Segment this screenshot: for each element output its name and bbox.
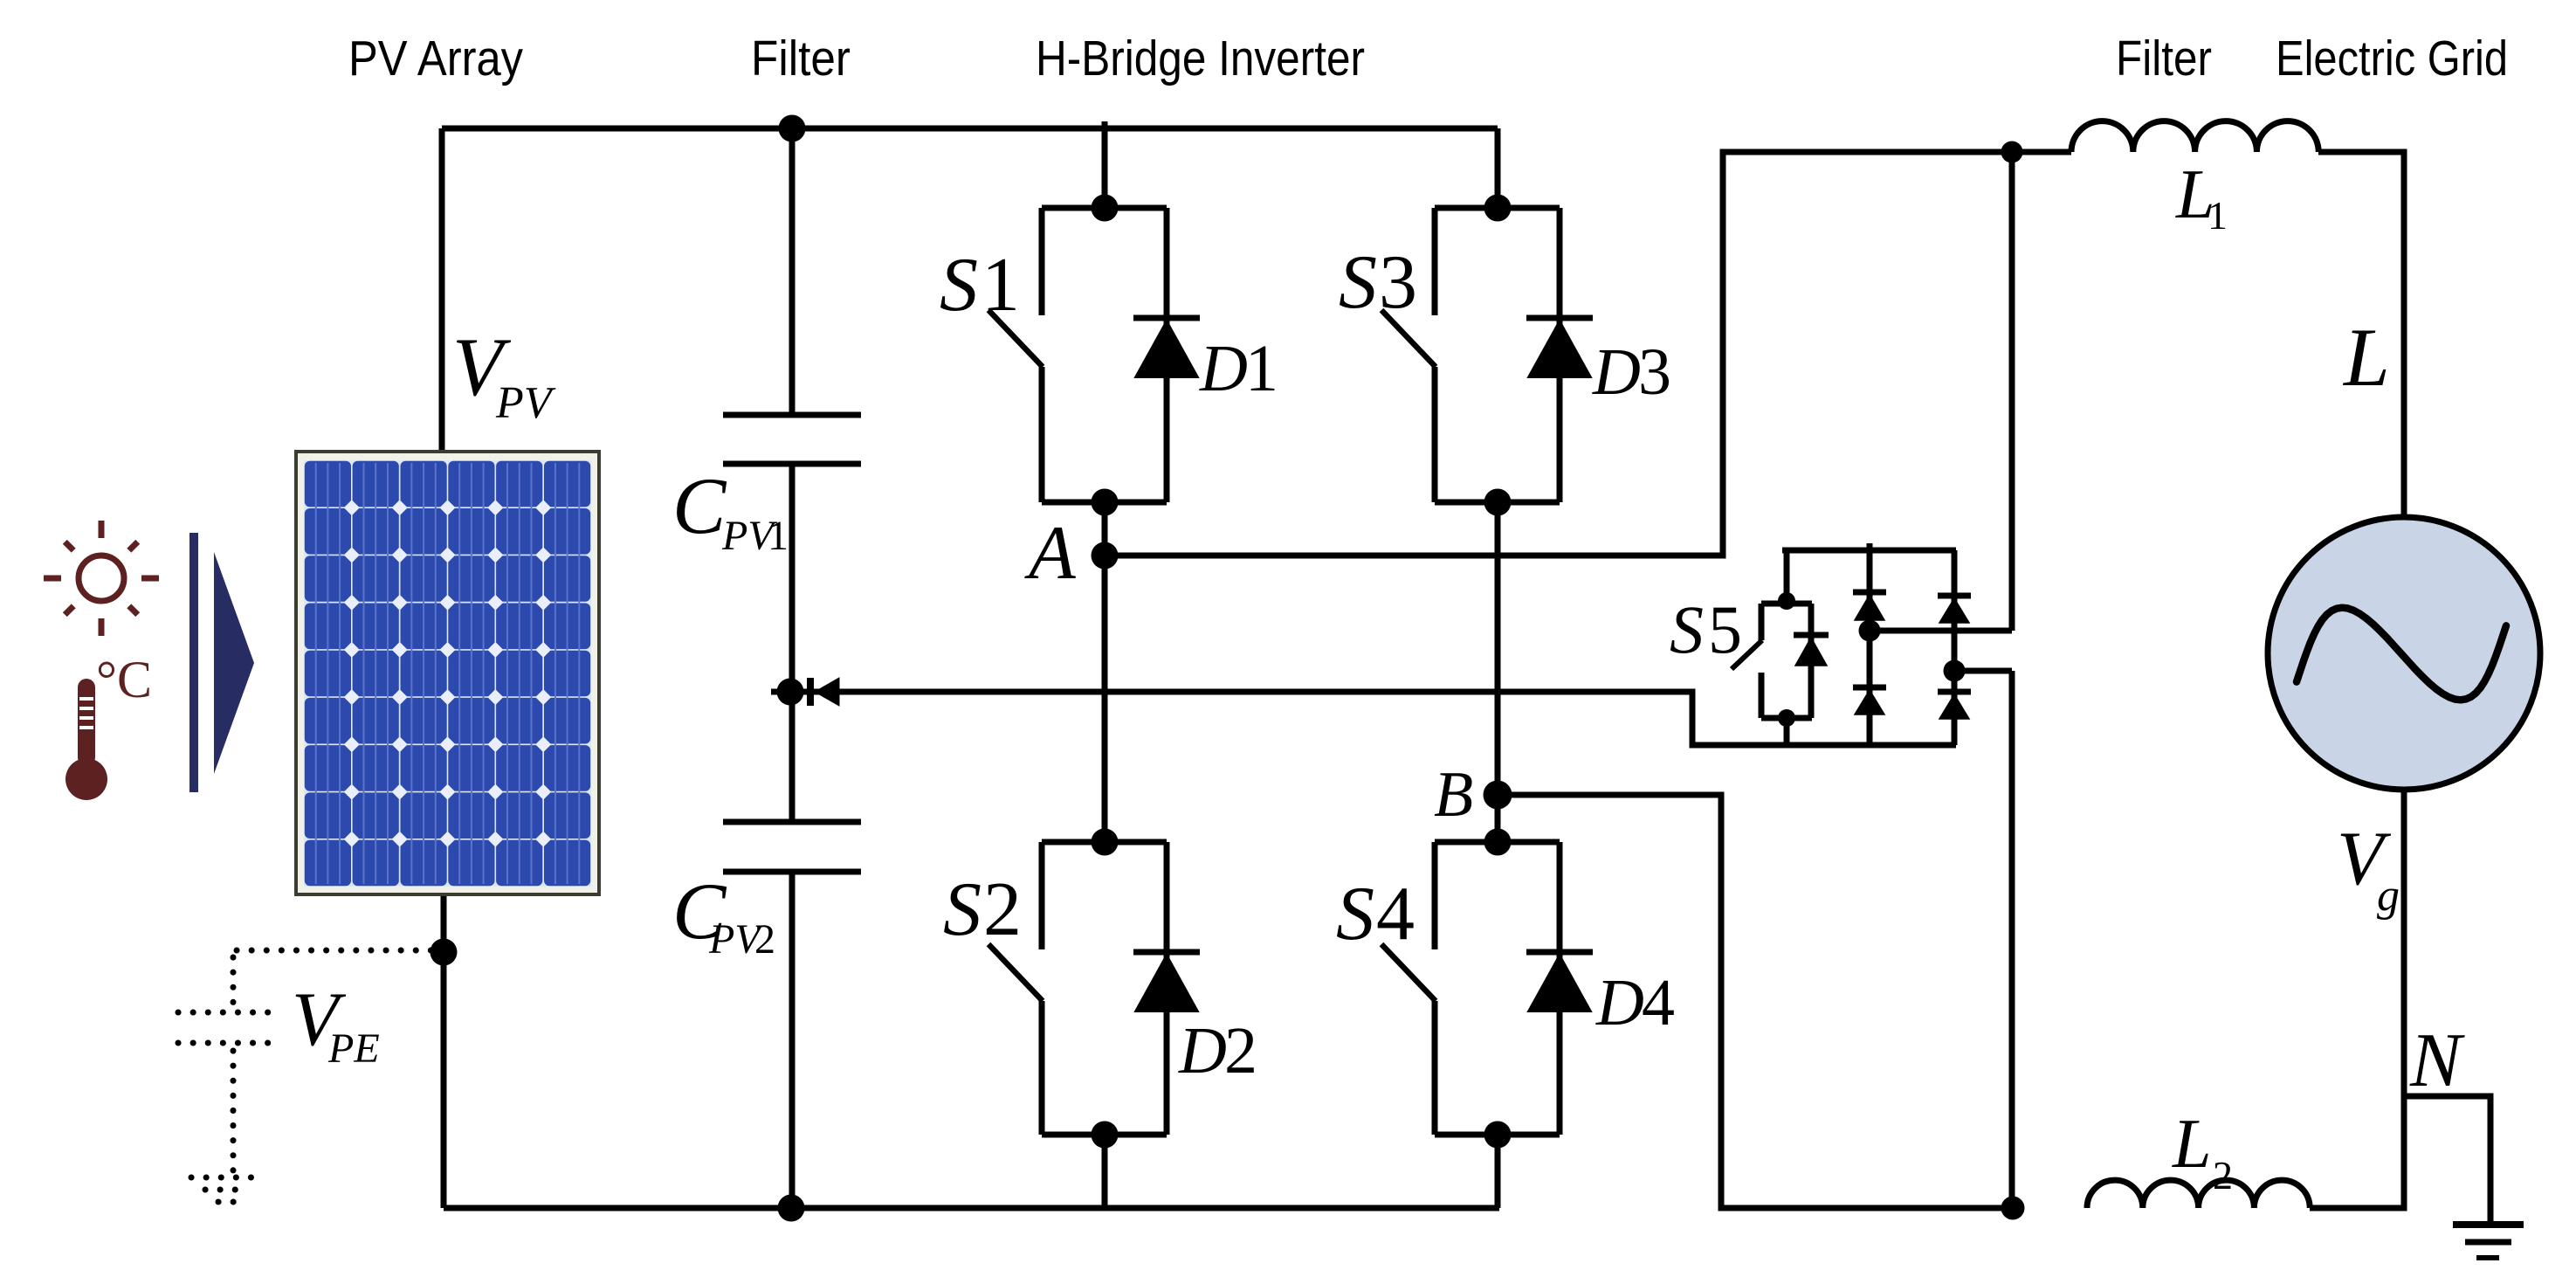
wire: filter leg lower [789, 872, 796, 1208]
capacitor: VPE dotted plates [178, 1012, 279, 1043]
label: Vg [2337, 817, 2400, 921]
label: L1 [2175, 156, 2228, 238]
svg-text:D: D [1595, 966, 1644, 1039]
label: D1 [1199, 332, 1278, 405]
svg-text:1: 1 [1245, 332, 1278, 405]
label: VPV [452, 321, 556, 428]
wire: VPE dotted horizontal [237, 948, 437, 954]
transistor S4 (switch + diode D4) [1381, 829, 1593, 1149]
wire: S2 to bottom bus [1102, 1135, 1108, 1208]
label: D2 [1178, 1014, 1257, 1087]
svg-text:1: 1 [768, 513, 789, 559]
diode: bridge column 2 [1938, 550, 1971, 745]
wire: Vg bottom to L2 corner [2310, 790, 2404, 1208]
capacitor CPV2 [723, 822, 861, 872]
svg-text:Filter: Filter [2116, 31, 2212, 86]
wire: PV negative lead [441, 896, 447, 1208]
node: bridge column1 mid junction [1859, 620, 1881, 642]
svg-text:1: 1 [2208, 193, 2228, 238]
wire: bottom DC bus [444, 1205, 1499, 1211]
svg-text:3: 3 [1638, 335, 1671, 409]
transistor S3 (switch + diode D3) [1381, 195, 1593, 516]
icon: input arrow [189, 533, 254, 792]
node: junction dot bottom bus / CPV2 [778, 1195, 805, 1222]
icon: thermometer [65, 651, 152, 800]
node B [1484, 781, 1512, 810]
wire: S4 to bottom bus [1495, 1135, 1501, 1208]
svg-text:Filter: Filter [751, 31, 851, 86]
node A [1092, 542, 1119, 569]
switch S5 cell [1732, 604, 1829, 718]
label: S2 [943, 867, 1022, 952]
node: junction dot capacitor midpoint [777, 679, 804, 706]
label: S3 [1339, 240, 1417, 325]
wire: riser up to grid top wire [2009, 152, 2015, 631]
wire: S5 bottom stub [1784, 718, 1790, 745]
inductor L2 [2087, 1180, 2310, 1208]
wire: top DC bus [442, 126, 1498, 132]
node: junction at L2 wire [2001, 1197, 2025, 1220]
transistor S1 (switch + diode D1) [988, 195, 1200, 516]
svg-text:2: 2 [983, 867, 1022, 952]
svg-text:D: D [1592, 335, 1641, 409]
label: D4 [1595, 966, 1675, 1039]
transistor S2 (switch + diode D2) [988, 829, 1200, 1149]
diode: bridge column 1 [1853, 543, 1886, 745]
svg-text:2: 2 [1224, 1014, 1257, 1087]
source Vg: AC circle [2268, 517, 2540, 790]
svg-text:S: S [940, 243, 978, 328]
svg-text:D: D [1199, 332, 1248, 405]
node: junction on grid top wire [2001, 142, 2023, 163]
svg-text:S: S [1670, 591, 1704, 667]
label: VPE [292, 977, 380, 1072]
wire: S1 to S2 leg through node A [1102, 502, 1108, 842]
wire: S1 feed from top bus [1102, 121, 1108, 208]
svg-text:2: 2 [754, 916, 775, 963]
svg-text:PV: PV [495, 378, 556, 428]
svg-text:H-Bridge Inverter: H-Bridge Inverter [1036, 31, 1365, 86]
wire: node B to L2 side [1498, 795, 2013, 1208]
wire: S5 top stub [1784, 550, 1790, 601]
svg-text:3: 3 [1379, 240, 1417, 325]
wire: filter leg upper [789, 128, 796, 415]
wire: S3 to S4 leg through node B [1495, 502, 1501, 842]
capacitor CPV1 [723, 415, 861, 464]
wire: midpoint to S5 block bottom [771, 692, 1956, 745]
node: S5 top junction [1778, 592, 1795, 610]
svg-text:L: L [2172, 1106, 2212, 1183]
svg-text:N: N [2409, 1018, 2465, 1103]
wire: column2 mid to downer [1954, 668, 2012, 674]
svg-text:S: S [943, 867, 981, 952]
node: S5 bottom junction [1778, 709, 1795, 727]
PV array panel [294, 450, 601, 896]
wire: VPE dotted vertical upper [231, 957, 237, 1006]
svg-text:4: 4 [1376, 872, 1415, 956]
svg-text:2: 2 [2213, 1153, 2233, 1198]
svg-text:B: B [1434, 759, 1473, 831]
wire: VPE dotted vertical lower [231, 1051, 237, 1170]
svg-text:D: D [1178, 1014, 1227, 1087]
label: S4 [1336, 872, 1415, 956]
svg-text:5: 5 [1708, 591, 1742, 667]
node: junction dot top bus / filter [779, 115, 806, 142]
svg-text:S: S [1339, 240, 1377, 325]
svg-text:Electric Grid: Electric Grid [2276, 31, 2508, 86]
wire: L1 to grid corner [2318, 152, 2404, 517]
svg-text:L: L [2342, 311, 2390, 404]
svg-text:g: g [2377, 871, 2400, 921]
ground symbol [2453, 1225, 2524, 1258]
label: CPV2 [672, 866, 775, 963]
svg-text:C: C [672, 461, 727, 550]
wire: downer to L2 junction [2009, 671, 2015, 1208]
wire: column1 mid to riser [1870, 628, 2012, 634]
wire: filter leg middle [789, 464, 796, 822]
label: L2 [2172, 1106, 2233, 1198]
label: S5 [1670, 591, 1742, 667]
label: CPV1 [672, 461, 789, 559]
label: S1 [940, 243, 1020, 328]
svg-text:PV Array: PV Array [348, 31, 523, 86]
wire: neutral branch [2404, 1096, 2490, 1221]
wire: S3 feed from top bus [1495, 128, 1501, 208]
diode: arrow into midpoint node [810, 678, 839, 706]
node: bridge column2 mid junction [1944, 660, 1966, 682]
wire: PV positive lead [439, 128, 445, 450]
ground: VPE dotted earth [191, 1177, 259, 1202]
svg-text:1: 1 [981, 243, 1020, 328]
inductor L1 [2071, 121, 2318, 152]
svg-text:S: S [1336, 872, 1374, 956]
svg-text:A: A [1024, 511, 1077, 596]
wire: node A to grid side [1105, 152, 2071, 556]
label: D3 [1592, 335, 1671, 409]
svg-text:°C: °C [96, 651, 152, 708]
svg-text:4: 4 [1642, 966, 1675, 1039]
svg-text:PE: PE [327, 1025, 380, 1072]
node: junction dot PV negative [430, 939, 458, 966]
wire: S5 block top rail [1782, 548, 1956, 554]
icon: sun [44, 521, 159, 636]
